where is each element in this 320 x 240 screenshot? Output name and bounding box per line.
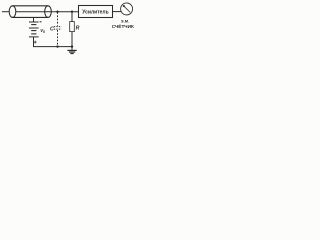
resistor R top lead xyxy=(71,12,73,22)
resistor R body xyxy=(70,22,75,32)
wire: anode axial wire to amplifier input xyxy=(16,11,79,13)
Geiger tube right end cap xyxy=(45,6,52,18)
capacitor C dashed bottom lead xyxy=(57,30,59,47)
svg-text:Усилитель: Усилитель xyxy=(82,9,108,15)
Geiger tube cylinder body xyxy=(13,5,49,7)
resistor R bottom lead xyxy=(71,32,73,47)
capacitor C dashed top lead xyxy=(57,12,59,26)
electromechanical counter meter circle xyxy=(121,3,133,15)
svg-text:C: C xyxy=(50,27,54,33)
amplifier box U1 xyxy=(79,6,113,18)
ground stub xyxy=(71,47,73,50)
node: anode/resistor junction xyxy=(71,11,73,13)
svg-text:СЧЁТЧИК: СЧЁТЧИК xyxy=(112,23,134,29)
wire: battery negative down and bottom rail xyxy=(34,37,73,47)
meter needle hub dot xyxy=(123,5,125,7)
ground symbol xyxy=(67,49,76,51)
battery minus sign xyxy=(40,21,42,23)
background xyxy=(0,0,134,60)
node: rail/resistor/ground junction xyxy=(71,45,73,47)
wire: amplifier to counter xyxy=(113,11,122,13)
svg-text:R: R xyxy=(76,25,80,31)
battery plus sign xyxy=(34,41,37,43)
svg-text:Э.М.: Э.М. xyxy=(121,19,129,24)
node: rail/capacitor junction xyxy=(56,45,58,47)
meter needle xyxy=(124,6,130,12)
battery Vb plates xyxy=(29,21,39,23)
wire: cathode down to battery xyxy=(33,17,35,22)
node: anode/capacitor junction xyxy=(56,11,58,13)
wire: cathode lead left of tube xyxy=(2,11,9,13)
capacitor C plates (dashed) xyxy=(54,26,62,28)
Geiger tube left end cap xyxy=(9,6,16,18)
